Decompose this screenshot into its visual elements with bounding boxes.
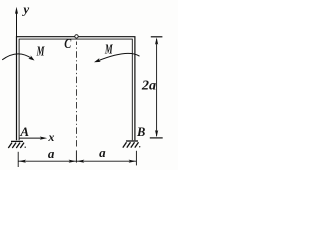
svg-text:2a: 2a xyxy=(141,78,156,93)
svg-text:C: C xyxy=(64,37,71,52)
svg-text:M: M xyxy=(36,44,45,59)
svg-text:M: M xyxy=(104,42,113,57)
svg-text:a: a xyxy=(99,145,106,160)
svg-text:y: y xyxy=(21,2,29,17)
svg-text:B: B xyxy=(136,125,145,139)
svg-text:A: A xyxy=(19,124,29,139)
svg-text:x: x xyxy=(47,130,54,144)
svg-text:a: a xyxy=(48,146,55,161)
